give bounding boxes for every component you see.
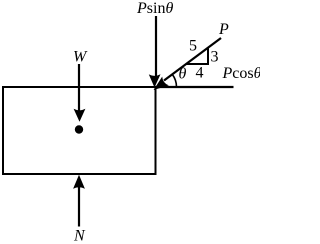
svg-text:P: P xyxy=(218,21,229,38)
svg-text:Pcosθ: Pcosθ xyxy=(222,65,261,82)
svg-text:N: N xyxy=(73,228,86,244)
svg-text:Psinθ: Psinθ xyxy=(136,0,173,17)
svg-text:θ: θ xyxy=(179,65,187,82)
svg-text:5: 5 xyxy=(189,37,197,54)
svg-text:3: 3 xyxy=(211,49,219,66)
svg-text:4: 4 xyxy=(196,65,204,82)
svg-text:W: W xyxy=(73,49,88,66)
